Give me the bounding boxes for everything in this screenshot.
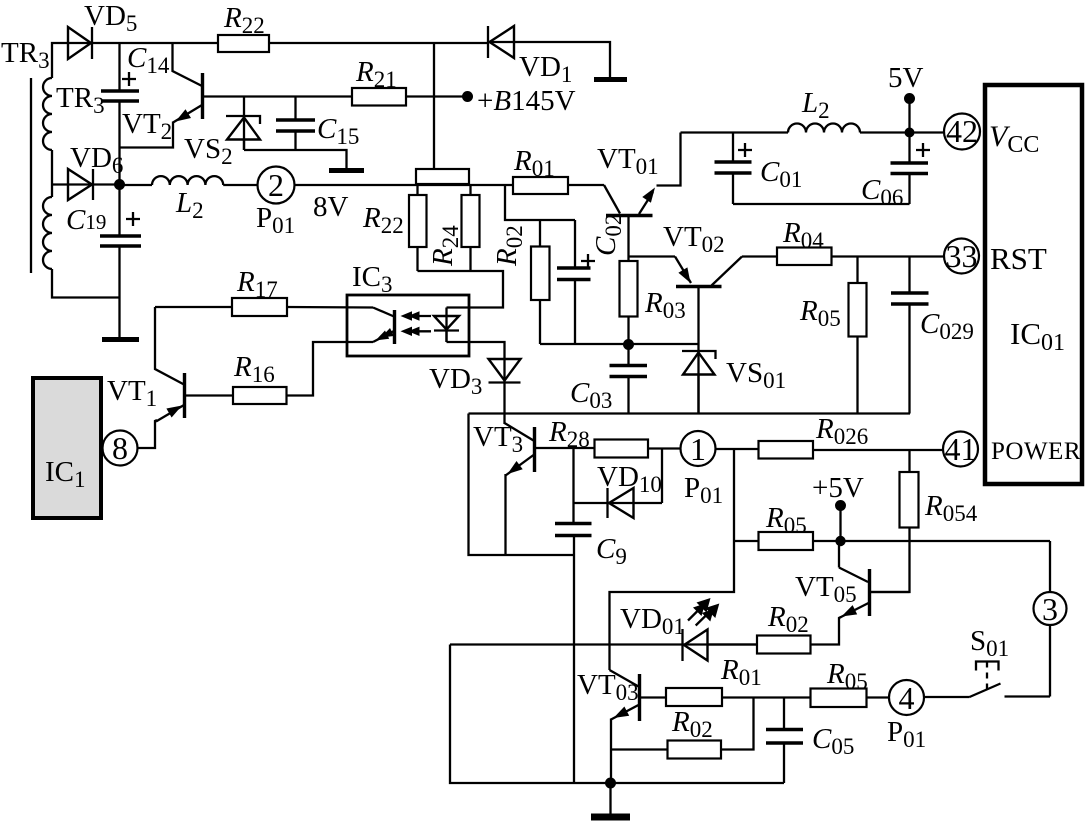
wire top rail to VD1 (269, 42, 488, 44)
resistor R22 (vertical) (409, 184, 427, 271)
transistor VT03 (610, 645, 640, 783)
wire VS2/C15 bottom to ground (244, 150, 347, 169)
resistor R02 (vertical) (531, 220, 550, 344)
wire winding bottom L (52, 269, 120, 298)
svg-text:41: 41 (945, 431, 977, 467)
node dot bottom bus (605, 778, 616, 789)
svg-text:3: 3 (1042, 591, 1058, 627)
resistor R04 (777, 248, 832, 266)
svg-text:+5V: +5V (812, 472, 864, 504)
ground (C15) (329, 168, 364, 173)
wire between windings (51, 150, 53, 197)
LED VD01 (683, 598, 720, 661)
diode VD3 (489, 359, 521, 424)
+5V terminal (812, 472, 864, 541)
op-amp IC01 box (985, 85, 1082, 484)
wire R21 to +B node (406, 95, 468, 97)
optocoupler IC3 box (347, 295, 469, 356)
wire +B vertical to divider box (433, 43, 435, 169)
wire VD01 cathode line (450, 643, 757, 645)
wire VT3 base to R28 (536, 447, 595, 449)
resistor R17 (155, 298, 373, 316)
resistor R01 (top) (513, 177, 568, 194)
pin 42 VCC (944, 113, 980, 150)
resistor R24 (vertical) (462, 184, 480, 271)
diode VD6 (52, 169, 120, 200)
opto LED (434, 308, 505, 383)
capacitor C19 (100, 185, 141, 338)
wire dot to L2 (120, 184, 153, 186)
capacitor C01 (715, 133, 753, 205)
resistor R026 (759, 441, 814, 459)
capacitor C02 (557, 220, 595, 344)
resistor R28 (595, 440, 649, 458)
svg-text:POWER: POWER (991, 438, 1081, 465)
pin circle 2 P01 (258, 167, 295, 204)
zener diode VS01 (682, 287, 716, 414)
inductor L2 (8V filter) (152, 176, 223, 185)
resistor R16 (186, 342, 374, 404)
svg-text:1: 1 (690, 431, 706, 467)
inductor L2 (5V filter) (788, 124, 860, 133)
zener diode VS2 (226, 97, 260, 151)
resistor R02 (bottom) (611, 698, 754, 759)
svg-text:5V: 5V (888, 62, 924, 94)
wire VT3 frame left (469, 414, 575, 556)
resistor R02 (mid) (757, 636, 811, 654)
wire L2 to pin 2 (223, 184, 257, 186)
resistor R01 (bottom) (641, 688, 811, 706)
capacitor C9 (555, 449, 592, 784)
pin circle 1 P01 (681, 431, 716, 467)
wire L2 to pin 42 (860, 131, 944, 133)
wire pin1 corner down (610, 449, 735, 645)
wire R04 to pin 33 (832, 255, 945, 257)
resistor R05 (bottom) (811, 689, 890, 708)
transistor VT02 (629, 257, 778, 287)
wire node horizontal (540, 343, 699, 345)
svg-text:2: 2 (268, 167, 284, 203)
pin 33 RST (944, 238, 979, 274)
node junction dot (VD6 / C14 / L2) (114, 179, 125, 190)
node dot 5V rail (905, 128, 915, 138)
resistor R03 (620, 216, 638, 345)
resistor R054 (870, 450, 919, 592)
wire divider bottom to opto LED (418, 271, 504, 308)
transformer winding TR3 primary (upper) (43, 78, 52, 150)
transistor VT01 (568, 133, 681, 216)
ground (bottom) (591, 783, 630, 817)
wire VT01 emitter rail (681, 131, 789, 133)
resistor R21 (352, 88, 406, 106)
capacitor C06 (891, 133, 931, 205)
resistor R05 (top) (734, 532, 1050, 550)
transistor VT2 (120, 43, 245, 148)
transistor VT05 (811, 541, 910, 645)
transformer core (30, 78, 32, 273)
wire pin1 to R026 (716, 448, 759, 450)
svg-text:42: 42 (946, 113, 978, 149)
wire 8V rail (295, 184, 514, 186)
resistor R05 (mid) (849, 257, 867, 414)
capacitor C14 (101, 43, 139, 185)
capacitor C029 (891, 257, 929, 414)
wire VD01 anode to R02 (708, 643, 758, 645)
svg-text:+B145V: +B145V (477, 85, 576, 117)
node dot (R03/C03) (623, 339, 634, 350)
diode VD10 (574, 449, 663, 519)
wire left frame to bottom bus (450, 645, 784, 784)
pin circle 4 P01 (889, 680, 924, 716)
diode VD5 (68, 27, 218, 59)
svg-text:4: 4 (899, 680, 915, 716)
wire R026 to pin 41 (813, 449, 943, 451)
wire top rail left corner (52, 43, 92, 78)
switch S01 (924, 662, 1050, 698)
diode VD1 (488, 26, 610, 77)
opto phototransistor (373, 308, 395, 345)
transistor VT1 (138, 307, 185, 448)
transformer winding TR3 secondary (lower) (43, 197, 52, 269)
5V terminal (888, 62, 924, 133)
svg-text:8: 8 (112, 430, 128, 466)
pin 41 POWER (943, 431, 978, 467)
capacitor C15 (276, 97, 315, 151)
capacitor C05 (766, 698, 803, 784)
ground (transformer / C19) (102, 337, 139, 342)
wire R28 to pin 1 (648, 447, 681, 449)
svg-text:33: 33 (946, 238, 978, 274)
resistor box (divider top) (416, 169, 469, 184)
transistor VT3 (505, 423, 535, 555)
pin circle 8 (103, 430, 138, 466)
pin circle 3 (1034, 541, 1067, 697)
wire ground bus (469, 412, 911, 414)
node dot +5V rail (835, 536, 845, 546)
svg-text:RST: RST (990, 241, 1047, 276)
node +B145V (462, 91, 473, 102)
wire C01-C06 bottom link (733, 203, 910, 205)
wire 8V to R02/C02 branch (505, 185, 575, 220)
base wire VT2 to R21 (244, 95, 352, 97)
capacitor C03 (610, 345, 648, 414)
opto light arrows (401, 311, 432, 336)
ground (VD1) (594, 77, 627, 82)
svg-text:8V: 8V (313, 191, 349, 223)
IC1 box (33, 378, 101, 518)
resistor R22 (top) (218, 35, 269, 52)
